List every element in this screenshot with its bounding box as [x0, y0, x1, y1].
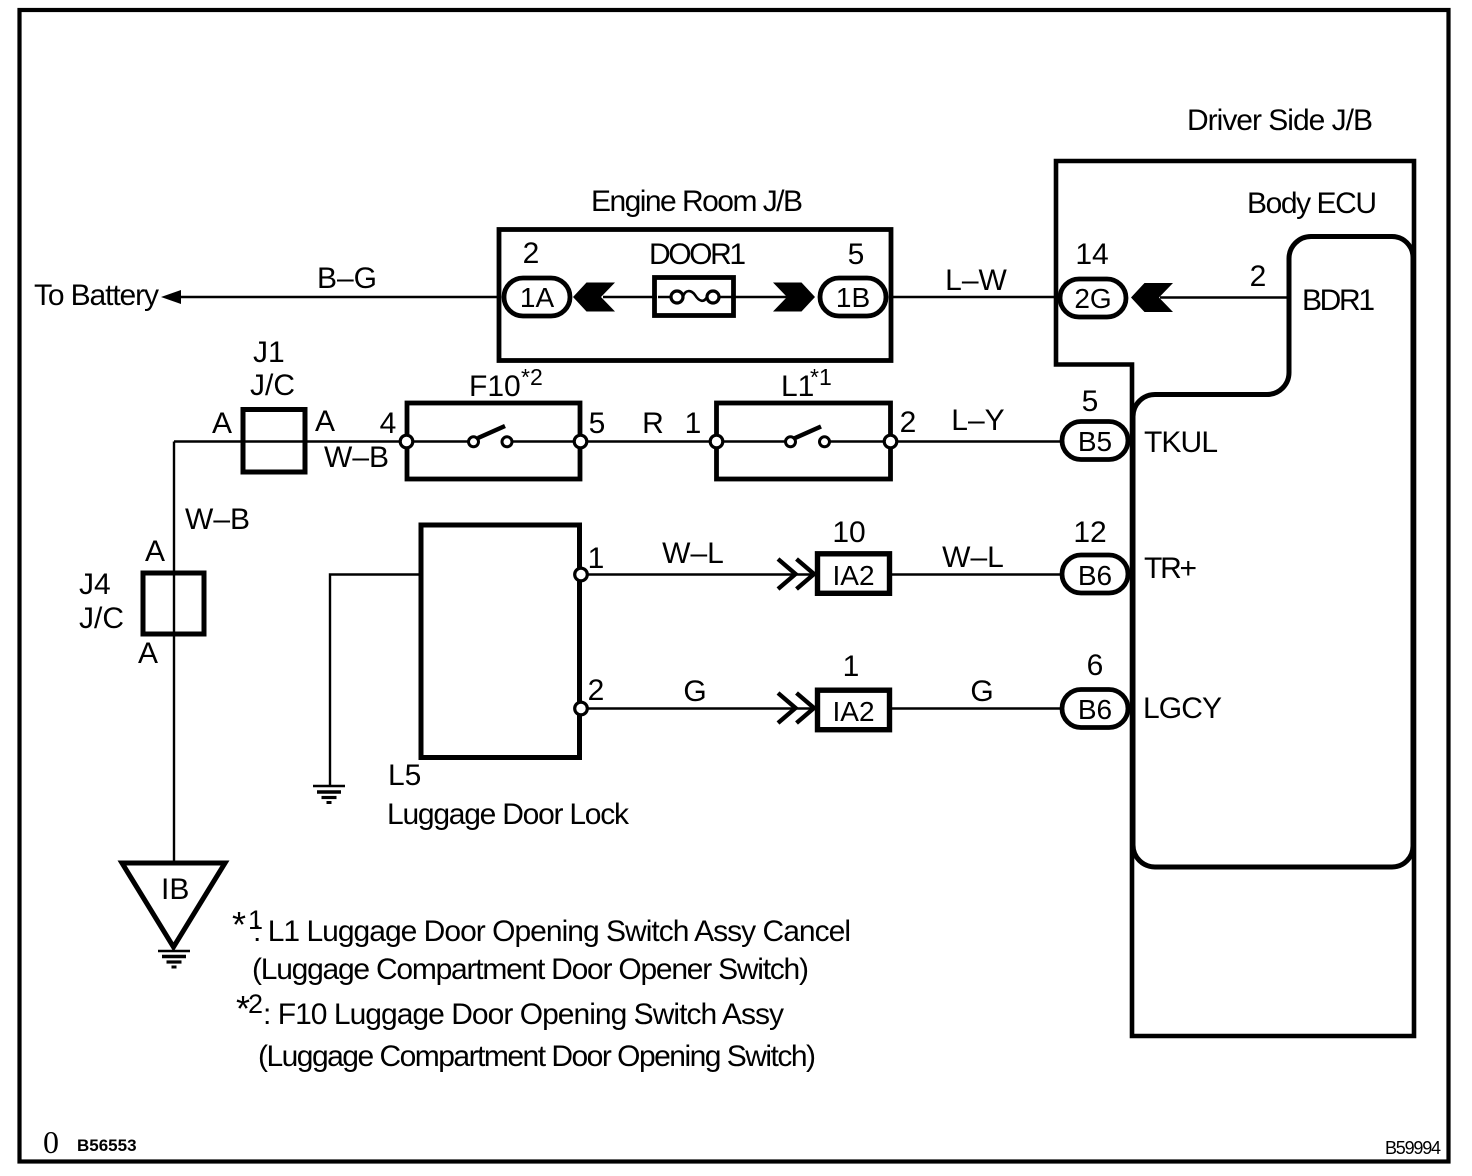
ground symbol at L5: [313, 785, 345, 788]
svg-text:12: 12: [1073, 516, 1106, 549]
wire To Battery row: [178, 296, 501, 298]
svg-text:: L1 Luggage Door Opening Swit: : L1 Luggage Door Opening Switch Assy Ca…: [253, 915, 851, 948]
wire 2G arrow to BDR1: [1160, 296, 1289, 298]
chevron arrows row 2: [778, 693, 814, 723]
luggage door lock L5 box: [421, 525, 580, 758]
svg-text:R: R: [642, 407, 664, 440]
switch F10 lever: [478, 426, 505, 438]
wire 1B to 2G: [891, 296, 1058, 298]
svg-text:5: 5: [589, 407, 606, 440]
svg-text:1: 1: [588, 542, 605, 575]
svg-text:L–Y: L–Y: [951, 404, 1004, 437]
svg-text:2: 2: [900, 406, 917, 439]
connector 1A oval: [504, 278, 570, 316]
L5 pin 2 circle: [575, 702, 588, 715]
svg-text:W–B: W–B: [185, 503, 250, 536]
switch F10 box: [407, 403, 580, 479]
svg-text:LGCY: LGCY: [1143, 692, 1222, 725]
svg-text:B5: B5: [1078, 426, 1112, 457]
connector B6 oval row 2: [1062, 690, 1128, 728]
svg-text:IA2: IA2: [832, 696, 874, 727]
svg-text:A: A: [138, 637, 158, 670]
svg-text:2: 2: [1250, 260, 1267, 293]
svg-text:*: *: [232, 904, 246, 945]
svg-text:*2: *2: [521, 364, 543, 390]
Engine Room J/B box: [499, 230, 891, 361]
arrow right at 1B: [773, 283, 815, 312]
svg-text:5: 5: [848, 238, 865, 271]
svg-text:W–L: W–L: [942, 541, 1004, 574]
svg-text:10: 10: [832, 516, 865, 549]
svg-text:*1: *1: [810, 364, 832, 390]
svg-text:J/C: J/C: [79, 602, 124, 635]
svg-text:J4: J4: [79, 568, 111, 601]
ground triangle IB: [122, 863, 225, 947]
fuse element: [658, 296, 732, 298]
switch L1 pins: [710, 435, 723, 448]
junction J1 box: [243, 410, 305, 473]
svg-text:TKUL: TKUL: [1144, 426, 1218, 459]
svg-text:B56553: B56553: [77, 1136, 137, 1155]
switch L1 box: [717, 403, 891, 479]
wire L1 to B5: [897, 440, 1060, 442]
svg-text:W–L: W–L: [662, 537, 724, 570]
wire fuse to arrow: [732, 296, 788, 298]
svg-text:1A: 1A: [520, 282, 555, 313]
arrow left at 1A: [573, 283, 615, 312]
svg-text:B59994: B59994: [1385, 1138, 1441, 1158]
switch F10 pins: [400, 435, 413, 448]
svg-text:2: 2: [588, 674, 605, 707]
svg-text:2: 2: [248, 989, 263, 1019]
wire L5 to ground: [330, 575, 419, 786]
svg-text:L5: L5: [388, 759, 421, 792]
connector IA2 box row 2: [818, 690, 890, 730]
connector 1B oval: [820, 278, 886, 316]
svg-text:Engine Room J/B: Engine Room J/B: [591, 185, 803, 218]
svg-text:J/C: J/C: [250, 369, 295, 402]
svg-text:B6: B6: [1078, 560, 1112, 591]
svg-text:2G: 2G: [1074, 283, 1111, 314]
wire into J1: [174, 440, 405, 442]
svg-text:14: 14: [1075, 238, 1108, 271]
svg-text:(Luggage Compartment Door Open: (Luggage Compartment Door Opening Switch…: [258, 1040, 816, 1073]
svg-text:Luggage Door Lock: Luggage Door Lock: [387, 798, 630, 831]
svg-text:Driver Side J/B: Driver Side J/B: [1187, 104, 1373, 137]
chevron arrows row 1: [778, 559, 814, 589]
Driver Side J/B box: [1056, 161, 1414, 1036]
svg-text:6: 6: [1087, 649, 1104, 682]
svg-text:1B: 1B: [836, 282, 870, 313]
svg-text:B6: B6: [1078, 694, 1112, 725]
svg-text:IA2: IA2: [832, 560, 874, 591]
wire F10 to L1: [587, 440, 710, 442]
connector B5 oval: [1062, 422, 1128, 460]
svg-text:IB: IB: [161, 873, 189, 906]
Body ECU U1 outline: [1133, 237, 1413, 868]
svg-text:1: 1: [843, 650, 860, 683]
svg-text:J1: J1: [253, 336, 285, 369]
ground symbol at IB: [158, 950, 190, 953]
To Battery arrowhead: [161, 290, 181, 304]
svg-text:0: 0: [43, 1124, 59, 1160]
connector B6 oval row 1: [1062, 555, 1128, 593]
arrow left at 2G: [1131, 283, 1173, 312]
svg-text:B–G: B–G: [317, 262, 377, 295]
svg-text:G: G: [683, 675, 706, 708]
switch F10 internal wires: [407, 440, 580, 442]
svg-text:TR+: TR+: [1144, 552, 1197, 585]
svg-text:(Luggage Compartment Door Open: (Luggage Compartment Door Opener Switch): [252, 953, 809, 986]
svg-text:DOOR1: DOOR1: [649, 238, 746, 271]
fuse DOOR1 box: [655, 278, 734, 316]
wire left vertical W-B: [173, 442, 175, 864]
switch L1 internal wires: [716, 440, 891, 442]
svg-text:: F10 Luggage Door Opening Swi: : F10 Luggage Door Opening Switch Assy: [263, 998, 784, 1031]
svg-text:W–B: W–B: [324, 441, 389, 474]
svg-text:1: 1: [685, 407, 702, 440]
switch L1 lever: [794, 427, 821, 439]
svg-text:4: 4: [380, 407, 397, 440]
svg-text:F10: F10: [469, 370, 521, 403]
wire arrow to fuse: [603, 296, 657, 298]
svg-text:L–W: L–W: [945, 264, 1007, 297]
svg-text:A: A: [212, 407, 232, 440]
switch L1 contacts: [786, 437, 796, 447]
svg-text:2: 2: [523, 237, 540, 270]
svg-text:A: A: [145, 535, 165, 568]
svg-text:Body ECU: Body ECU: [1247, 187, 1377, 220]
wire L5 pin1 to IA2: [587, 573, 816, 575]
svg-text:BDR1: BDR1: [1302, 284, 1375, 317]
wire IA2 to B6: [892, 573, 1060, 575]
L5 pin 1 circle: [575, 568, 588, 581]
switch F10 contacts: [469, 437, 479, 447]
junction J4 box: [143, 573, 204, 634]
svg-text:A: A: [315, 405, 335, 438]
connector 2G oval: [1060, 279, 1126, 317]
wire IA2 to B6 row 2: [892, 707, 1060, 709]
svg-text:G: G: [970, 675, 993, 708]
wire L5 pin2 to IA2: [587, 707, 816, 709]
svg-text:To Battery: To Battery: [34, 279, 159, 312]
connector IA2 box row 1: [818, 554, 890, 594]
svg-text:5: 5: [1082, 385, 1099, 418]
